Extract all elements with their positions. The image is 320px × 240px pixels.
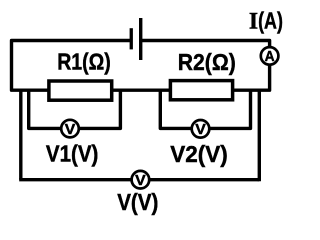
wire V2 left riser from middle node <box>160 90 192 128</box>
voltmeter V circle <box>132 171 150 189</box>
svg-text:I(A): I(A) <box>249 7 283 33</box>
voltmeter V1 circle <box>61 120 79 138</box>
wire middle node between R1 and R2 <box>110 88 172 91</box>
wire V1 right riser from middle node <box>79 90 120 128</box>
svg-text:R1(Ω): R1(Ω) <box>57 49 111 75</box>
svg-text:R2(Ω): R2(Ω) <box>178 49 236 75</box>
wire top-left + left side + into R1 <box>12 41 131 91</box>
battery cell: short negative plate <box>130 28 133 49</box>
svg-text:V: V <box>65 122 76 138</box>
ammeter circle <box>261 47 279 65</box>
wire left outer leg down to bottom rail <box>19 90 22 180</box>
wire top-right from battery to ammeter corner <box>141 41 269 48</box>
svg-text:V: V <box>135 173 146 189</box>
battery cell: long positive plate <box>139 18 142 60</box>
wire ammeter bottom lead down to R2-right node <box>231 65 270 90</box>
svg-text:V1(V): V1(V) <box>46 141 99 167</box>
svg-text:V(V): V(V) <box>117 189 158 215</box>
svg-text:V2(V): V2(V) <box>170 141 228 167</box>
svg-text:V: V <box>195 122 206 138</box>
wire right outer leg down to bottom rail <box>258 90 261 181</box>
svg-text:A: A <box>265 49 275 65</box>
wire left inner leg down to V1 branch <box>29 90 62 128</box>
resistor R2 box <box>170 81 232 100</box>
voltmeter V2 circle <box>192 120 210 138</box>
resistor R1 box <box>49 81 112 100</box>
wire V2 right leg from R2-right node <box>209 90 251 128</box>
wire bottom rail through voltmeter V <box>19 178 259 181</box>
